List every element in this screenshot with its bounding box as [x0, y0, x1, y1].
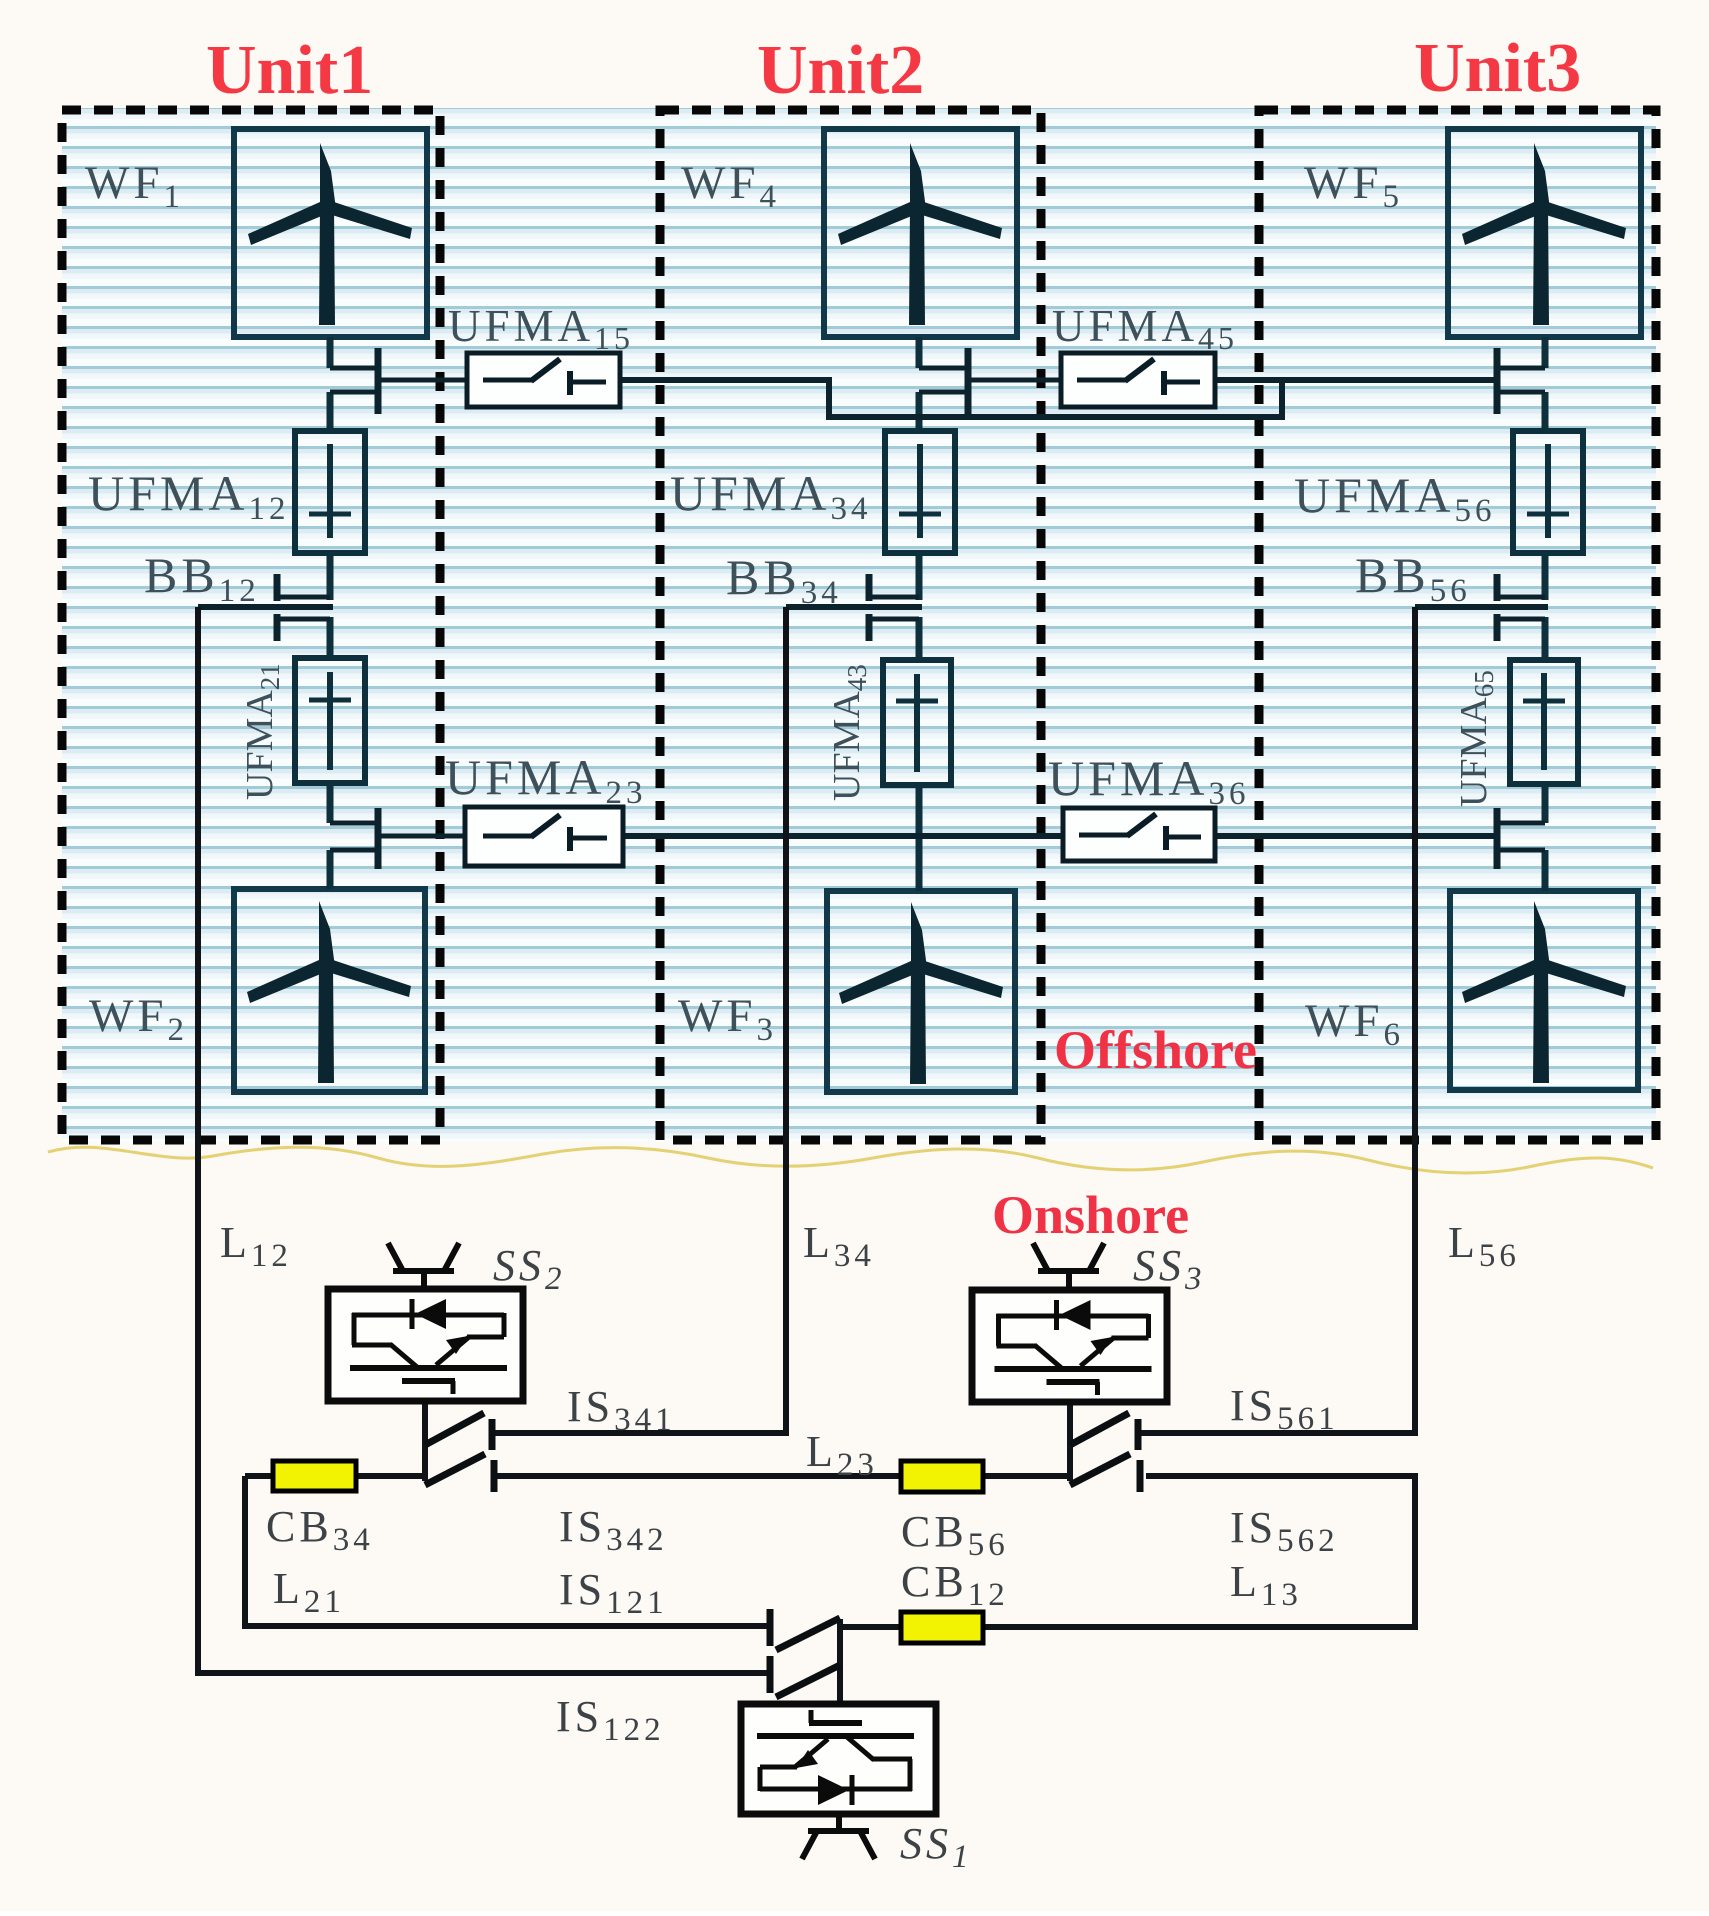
wire lower junction to WF2 — [327, 850, 334, 889]
node bar BB34 lower — [866, 614, 873, 641]
UFMA12 device box — [295, 431, 365, 553]
isolator IS561 blade — [1070, 1413, 1129, 1445]
converter station SS1 box — [741, 1704, 936, 1814]
wind turbine icon WF3 — [839, 902, 1003, 1084]
node stub WF5 junction (top) — [1499, 366, 1545, 371]
Unit3 dashed boundary box — [1259, 110, 1656, 1140]
wire junction to UFMA45 — [971, 378, 1061, 383]
wire BB12 to UFMA21 — [327, 617, 334, 658]
svg-text:Unit3: Unit3 — [1414, 30, 1581, 107]
UFMA21 device box — [295, 658, 365, 783]
UFMA43 device box — [883, 660, 951, 785]
Unit1 dashed boundary box — [62, 110, 440, 1140]
wire junction to UFMA23 — [381, 834, 465, 839]
UFMA45 switch box — [1061, 353, 1215, 407]
wire UFMA15 output jog down — [620, 380, 1282, 417]
node bar BB56 lower — [1494, 614, 1501, 641]
wire UFMA56 to busbar BB56 — [1542, 553, 1549, 600]
UFMA34 device box — [885, 431, 955, 553]
converter SS3 inner symbol — [995, 1300, 1152, 1395]
node stub WF5 junction (bottom) — [1499, 390, 1545, 395]
circuit breaker CB56 — [901, 1461, 983, 1492]
converter SS2 inner symbol — [350, 1299, 507, 1394]
converter station SS3 box — [972, 1290, 1167, 1402]
svg-text:Offshore: Offshore — [1054, 1020, 1257, 1080]
node bar of WF1 top junction — [375, 348, 382, 414]
svg-text:Unit2: Unit2 — [757, 32, 924, 109]
svg-text:Onshore: Onshore — [992, 1185, 1189, 1245]
wind turbine icon WF5 — [1462, 143, 1626, 325]
offshore ruled water background — [62, 108, 1656, 1142]
node bar of WF6 lower junction — [1494, 808, 1501, 869]
wire CB56 to SS3 stem — [983, 1473, 1070, 1479]
UFMA65 device box — [1510, 660, 1578, 784]
node stub BB12 lower — [277, 617, 330, 622]
isolator IS121 contact bar — [767, 1609, 774, 1646]
node stub BB12 upper — [277, 595, 330, 600]
wire BB56 tap to line L56 — [1415, 604, 1548, 610]
node stub upper junction WF1 (bottom) — [330, 390, 376, 395]
isolator IS562 contact bar — [1137, 1460, 1144, 1492]
wire junction to UFMA15 — [381, 378, 467, 383]
converter station SS2 box — [328, 1289, 523, 1401]
node stub WF6 junction (top) — [1499, 821, 1545, 826]
node stub WF4 junction (top) — [919, 366, 966, 371]
isolator IS342 blade — [425, 1454, 485, 1485]
wire UFMA12 to busbar BB12 — [327, 553, 334, 600]
wire UFMA36 to WF6 junction — [1215, 833, 1495, 839]
isolator IS341 contact bar — [489, 1419, 496, 1450]
UFMA56 device box — [1513, 431, 1583, 553]
circuit breaker CB34 — [273, 1461, 356, 1491]
shoreline wavy line — [48, 1147, 1653, 1173]
wire CB12 to SS1 node — [840, 1624, 901, 1630]
wind farm WF6 box — [1450, 891, 1638, 1090]
isolator IS122 blade — [776, 1665, 840, 1697]
wind farm WF1 box — [234, 129, 427, 337]
wire UFMA34 to busbar BB34 — [916, 553, 923, 600]
wire top junction to UFMA34 — [916, 392, 923, 431]
isolator IS122 contact bar — [767, 1656, 774, 1693]
line L12 (BB12 to IS122) — [198, 607, 768, 1673]
wind farm WF2 box — [234, 889, 425, 1092]
node bar BB12 lower — [274, 614, 281, 641]
node stub BB56 lower — [1497, 617, 1545, 622]
wire BB56 to UFMA65 — [1542, 617, 1549, 660]
line L21 (CB34 corner down to IS121) — [245, 1476, 768, 1626]
wire UFMA23 to UFMA36 crossing Unit2 — [623, 833, 1063, 839]
UFMA15 switch box — [467, 353, 620, 407]
node bar of WF5 top junction — [1494, 348, 1501, 414]
node bar BB56 upper — [1494, 574, 1501, 601]
UFMA36 switch box — [1063, 808, 1215, 861]
node stub upper junction WF1 (top) — [330, 366, 376, 371]
isolator IS121 blade — [776, 1618, 840, 1650]
wire UFMA21 to lower junction — [327, 783, 334, 823]
wire SS2 stem — [422, 1401, 428, 1481]
wind farm WF4 box — [824, 129, 1017, 337]
wire lower junction to WF6 — [1542, 850, 1549, 891]
node bar of WF4 top junction — [965, 348, 972, 414]
Unit2 dashed boundary box — [660, 110, 1041, 1140]
wind turbine icon WF4 — [838, 143, 1002, 325]
wire top junction to UFMA56 — [1542, 392, 1549, 431]
wire BB34 to UFMA43 — [916, 617, 923, 660]
line L23 segment CB34 to SS2 stem — [245, 1473, 273, 1479]
isolator IS562 blade — [1070, 1454, 1130, 1485]
converter SS1 inner symbol (rotated 180) — [757, 1710, 914, 1805]
node stub WF6 junction (bottom) — [1499, 848, 1545, 853]
grid symbol above SS3 — [1033, 1243, 1104, 1292]
wire SS1 trunk — [837, 1619, 843, 1706]
isolator IS342 contact bar — [491, 1460, 498, 1492]
line L23 (IS342 to CB56) — [494, 1473, 901, 1479]
node bar of WF2 lower junction — [375, 808, 382, 869]
UFMA23 switch box — [465, 807, 623, 866]
line L34 (BB34 to IS341) — [494, 607, 786, 1433]
wire top junction to UFMA12 — [327, 392, 334, 431]
svg-text:Unit1: Unit1 — [206, 32, 373, 109]
wind turbine icon WF6 — [1462, 901, 1626, 1083]
grid symbol below SS1 — [802, 1814, 875, 1859]
node stub BB34 upper — [869, 595, 919, 600]
node bar BB12 upper — [274, 574, 281, 601]
wind farm WF3 box — [827, 891, 1015, 1092]
isolator IS341 blade — [425, 1413, 484, 1445]
node stub lower junction WF2 (top) — [330, 821, 376, 826]
wire SS3 stem — [1067, 1402, 1073, 1481]
line L13 (IS562 down to CB12) — [983, 1476, 1415, 1627]
wind turbine icon WF2 — [247, 901, 411, 1083]
wind farm WF5 box — [1448, 129, 1641, 337]
wire WF1 to top junction — [327, 337, 334, 368]
circuit breaker CB12 — [901, 1612, 983, 1643]
node stub WF4 junction (bottom) — [919, 390, 966, 395]
line L56 (BB56 to IS561) — [1140, 607, 1415, 1433]
node stub lower junction WF2 (bottom) — [330, 848, 376, 853]
node stub BB56 upper — [1497, 595, 1545, 600]
wire UFMA45 output to WF5 junction — [1215, 377, 1495, 383]
wire WF4 to top junction — [916, 337, 923, 368]
wire UFMA65 to lower junction — [1542, 784, 1549, 823]
wind turbine icon WF1 — [248, 143, 412, 325]
isolator IS561 contact bar — [1135, 1419, 1142, 1450]
wire WF5 to top junction — [1542, 337, 1549, 368]
wire BB34 tap to line L34 — [786, 604, 922, 610]
wire CB34 to SS2 stem — [356, 1473, 425, 1479]
node bar BB34 upper — [866, 574, 873, 601]
node stub BB34 lower — [869, 617, 919, 622]
grid symbol above SS2 — [388, 1243, 459, 1291]
wire BB12 tap to line L12 — [198, 604, 333, 610]
wire UFMA43 to WF3 — [916, 785, 923, 891]
